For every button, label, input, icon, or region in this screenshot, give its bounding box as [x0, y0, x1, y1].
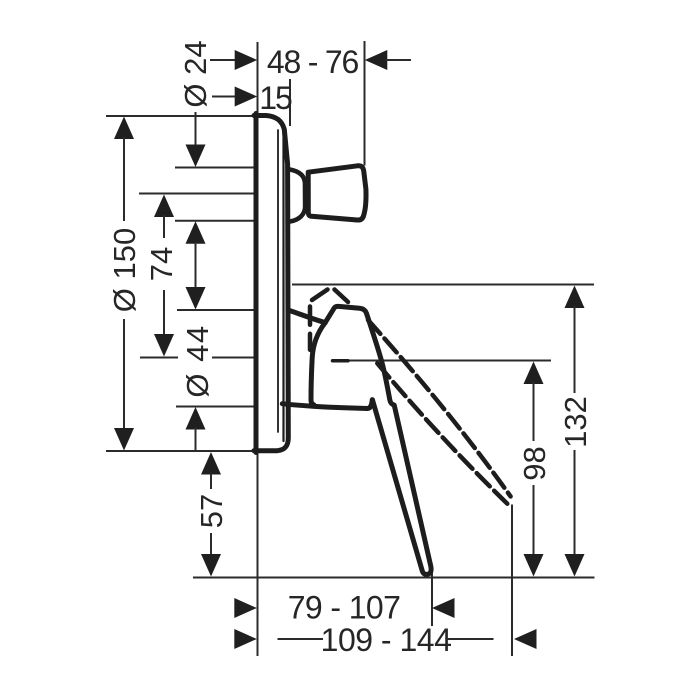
dim 98 arrow up: [524, 362, 544, 385]
dim 109-144 arrow left: [234, 629, 256, 649]
dim O150 arrow up: [114, 117, 134, 140]
baseline extension line bottom: [193, 577, 595, 579]
svg-text:109 - 144: 109 - 144: [321, 622, 452, 658]
dim 48-76 leader left: [210, 59, 237, 61]
extension line knob top: [175, 167, 254, 169]
extension line knob axis: [139, 193, 254, 195]
extension line 132 top: [292, 284, 594, 286]
svg-text:48 - 76: 48 - 76: [267, 44, 359, 80]
dashed lever top line: [368, 320, 511, 496]
dim 79-107 arrow left: [234, 598, 256, 618]
dim 98 arrow down: [524, 554, 544, 577]
svg-text:57: 57: [194, 494, 229, 528]
dim 57 line lower: [210, 533, 212, 557]
extension line escutcheon bottom (O150 bottom): [106, 450, 256, 452]
dim 48-76 leader right: [386, 59, 412, 61]
escutcheon outline top right bottom: [254, 116, 288, 451]
dim O44 arrow to body top: [186, 287, 206, 310]
escutcheon inner line 1: [277, 130, 279, 432]
wall extension line (below plate): [257, 454, 259, 657]
dim 98 line upper: [533, 382, 535, 441]
dim 15 arrow: [235, 87, 258, 107]
temperature knob: [308, 166, 366, 220]
dim chain leader middle: [195, 242, 197, 289]
dim 132 arrow down: [565, 554, 585, 577]
dim 57 line upper: [210, 473, 212, 490]
extension line dashed lever tip: [511, 505, 513, 657]
svg-text:Ø 24: Ø 24: [178, 40, 213, 107]
dim 74 arrow down: [154, 334, 174, 357]
dim 79-107 arrow right: [432, 598, 455, 618]
dim 132 line lower: [574, 450, 576, 556]
body top edge, lever neck, blade and tip: [325, 306, 431, 574]
dim 74 line upper: [163, 215, 165, 238]
svg-text:74: 74: [144, 247, 179, 281]
dim 98 line lower: [533, 485, 535, 556]
escutcheon left edge: [254, 114, 259, 453]
dim O150 arrow down: [114, 428, 134, 451]
escutcheon inner line 2: [282, 127, 284, 441]
dim 109-144 leader right: [446, 638, 494, 640]
extension line knob bottom: [175, 220, 254, 222]
dim O150 line lower: [123, 319, 125, 430]
extension line 48-76 right: [364, 41, 366, 166]
dim O24 arrow to knob bottom: [186, 221, 206, 244]
svg-text:132: 132: [558, 396, 593, 448]
body bottom edge with hook: [282, 400, 372, 409]
dim 57 arrow up: [201, 452, 221, 475]
svg-text:Ø 150: Ø 150: [107, 228, 142, 312]
dim O150 line upper: [123, 137, 125, 221]
dashed lever bottom line: [377, 363, 508, 504]
dim 74 line lower: [163, 290, 165, 336]
dim O24 leader upper: [195, 112, 197, 147]
knob base bulge: [290, 170, 305, 222]
dim 57 arrow down: [201, 554, 221, 577]
wall extension line (above plate): [257, 42, 259, 113]
dashed lever left edge dash 2: [308, 334, 313, 350]
dim 109-144 arrow right: [514, 629, 537, 649]
dashed lever apex right: [335, 290, 349, 303]
lever pivot tick: [333, 359, 349, 363]
dashed lever left edge dash 1: [308, 307, 313, 325]
dim O44 arrow to body bottom: [186, 407, 206, 430]
dim 109-144 leader left: [278, 638, 324, 640]
extension line solid lever tip: [431, 567, 433, 626]
cartridge sleeve top edge: [290, 311, 326, 323]
svg-text:15: 15: [259, 80, 292, 116]
svg-text:98: 98: [517, 446, 552, 480]
dim 132 line upper: [574, 306, 576, 393]
extension line 98 top / lever axis right: [333, 360, 552, 362]
dim 48-76 arrow right: [365, 50, 388, 70]
extension line escutcheon top (O150 top): [106, 115, 256, 117]
dim 132 arrow up: [565, 286, 585, 309]
extension line body bottom (O44 bottom): [176, 406, 254, 408]
extension line 15 right: [289, 79, 291, 126]
dim O44 leader lower: [195, 428, 197, 453]
dim 48-76 arrow left: [235, 50, 258, 70]
body left edge: [311, 323, 325, 405]
extension line body top (O44 top): [177, 309, 254, 311]
dim 74 arrow up: [154, 195, 174, 218]
extension line lever axis left: [140, 357, 254, 359]
svg-text:79 - 107: 79 - 107: [288, 590, 401, 626]
dim O24 arrow to knob top: [186, 145, 206, 168]
dim 15 leader: [212, 96, 237, 98]
svg-text:Ø 44: Ø 44: [180, 324, 215, 397]
dashed lever apex left: [312, 290, 328, 301]
